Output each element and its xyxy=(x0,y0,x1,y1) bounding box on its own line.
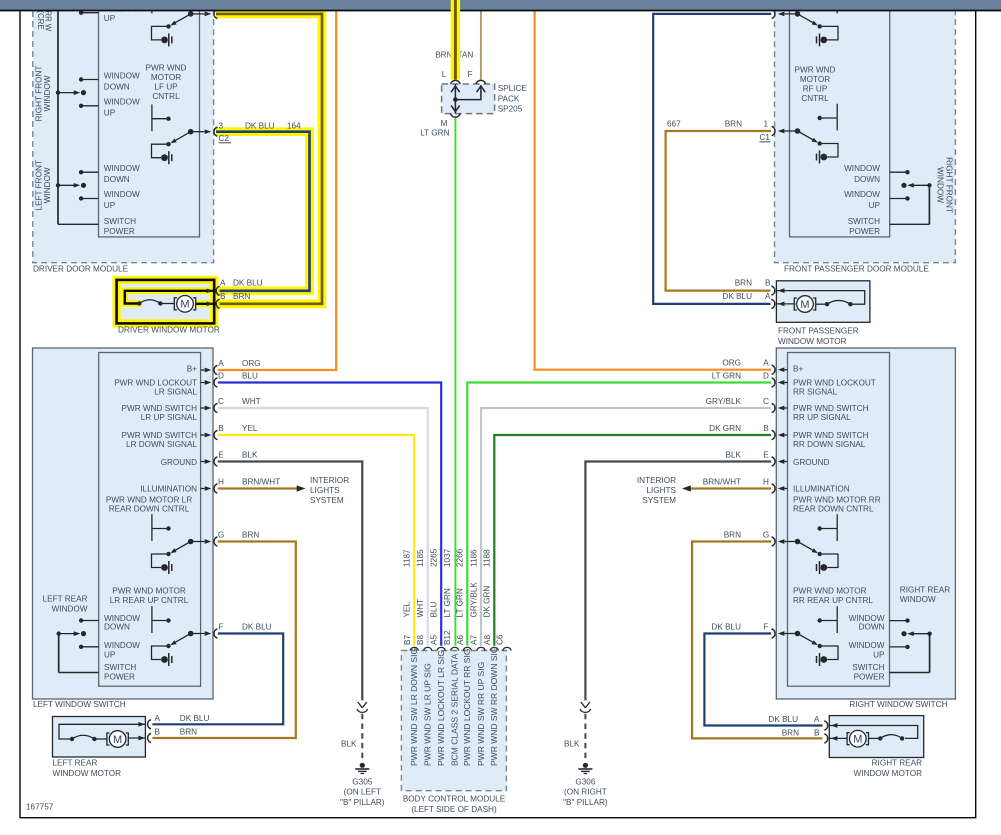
svg-text:RR REAR UP CNTRL: RR REAR UP CNTRL xyxy=(793,596,873,605)
svg-text:M: M xyxy=(441,119,448,128)
svg-text:DK BLU: DK BLU xyxy=(242,623,272,632)
svg-text:G: G xyxy=(763,531,769,540)
svg-text:PWR WND LOCKOUT: PWR WND LOCKOUT xyxy=(793,379,876,388)
svg-text:SP205: SP205 xyxy=(498,105,523,114)
svg-text:RR UP SIGNAL: RR UP SIGNAL xyxy=(793,413,851,422)
svg-text:M: M xyxy=(853,734,862,746)
svg-text:GRY/BLK: GRY/BLK xyxy=(469,582,478,618)
svg-text:BRN: BRN xyxy=(724,531,741,540)
svg-text:POWER: POWER xyxy=(854,672,885,681)
svg-text:A: A xyxy=(155,714,161,723)
svg-text:1: 1 xyxy=(763,120,768,129)
svg-text:(ON RIGHT: (ON RIGHT xyxy=(564,788,607,797)
svg-text:ILLUMINATION: ILLUMINATION xyxy=(793,485,850,494)
svg-text:WINDOW: WINDOW xyxy=(844,190,880,199)
svg-text:MOTOR: MOTOR xyxy=(800,75,830,84)
svg-text:167757: 167757 xyxy=(26,803,54,812)
svg-text:LR UP SIGNAL: LR UP SIGNAL xyxy=(141,413,198,422)
svg-text:SYSTEM: SYSTEM xyxy=(642,496,676,505)
svg-text:FRONT PASSENGER DOOR MODULE: FRONT PASSENGER DOOR MODULE xyxy=(784,265,929,274)
svg-text:A5: A5 xyxy=(430,635,439,645)
svg-text:RIGHT WINDOW SWITCH: RIGHT WINDOW SWITCH xyxy=(849,700,947,709)
svg-text:2265: 2265 xyxy=(430,548,439,567)
svg-text:LT GRN: LT GRN xyxy=(443,588,452,617)
svg-text:F: F xyxy=(467,70,472,79)
svg-text:C1: C1 xyxy=(760,133,771,142)
svg-text:WINDOW: WINDOW xyxy=(104,641,140,650)
svg-text:UP: UP xyxy=(104,14,116,23)
svg-text:A7: A7 xyxy=(470,635,479,645)
svg-text:H: H xyxy=(763,478,769,487)
svg-text:DK GRN: DK GRN xyxy=(483,586,492,618)
svg-text:F: F xyxy=(218,623,223,632)
svg-text:RIGHT REAR: RIGHT REAR xyxy=(900,586,950,595)
svg-text:PWR WND MOTOR: PWR WND MOTOR xyxy=(793,587,867,596)
svg-text:BCM CLASS 2 SERIAL DATA: BCM CLASS 2 SERIAL DATA xyxy=(450,653,460,766)
svg-text:B: B xyxy=(763,424,769,433)
svg-text:POWER: POWER xyxy=(104,672,135,681)
svg-text:(LEFT SIDE OF DASH): (LEFT SIDE OF DASH) xyxy=(411,805,497,814)
svg-text:3: 3 xyxy=(219,122,224,131)
svg-text:SPLICE: SPLICE xyxy=(498,84,528,93)
svg-text:BRN: BRN xyxy=(233,292,250,301)
svg-text:BLK: BLK xyxy=(341,740,357,749)
svg-text:"B" PILLAR): "B" PILLAR) xyxy=(340,798,385,807)
svg-text:UP: UP xyxy=(104,201,116,210)
svg-text:M: M xyxy=(113,734,122,746)
svg-text:H: H xyxy=(218,478,224,487)
svg-text:BRN: BRN xyxy=(735,279,752,288)
svg-text:(ON LEFT: (ON LEFT xyxy=(344,788,381,797)
svg-text:RR W: RR W xyxy=(43,11,52,32)
svg-text:REAR DOWN CNTRL: REAR DOWN CNTRL xyxy=(109,505,190,514)
svg-text:1187: 1187 xyxy=(403,549,412,567)
svg-text:RIGHT REAR: RIGHT REAR xyxy=(872,759,922,768)
svg-text:BLK: BLK xyxy=(564,740,580,749)
svg-text:LEFT WINDOW SWITCH: LEFT WINDOW SWITCH xyxy=(33,700,126,709)
svg-text:WINDOW MOTOR: WINDOW MOTOR xyxy=(853,769,922,778)
svg-text:BRN/WHT: BRN/WHT xyxy=(703,478,741,487)
svg-text:C: C xyxy=(763,397,769,406)
svg-text:B12: B12 xyxy=(443,630,452,645)
svg-text:PWR WND: PWR WND xyxy=(795,66,836,75)
svg-text:A8: A8 xyxy=(483,635,492,645)
svg-text:PWR WND MOTOR: PWR WND MOTOR xyxy=(112,587,186,596)
svg-text:M: M xyxy=(180,299,189,311)
svg-text:2266: 2266 xyxy=(456,548,465,567)
svg-text:DK BLU: DK BLU xyxy=(245,122,275,131)
svg-text:A: A xyxy=(220,279,226,288)
svg-text:DOWN: DOWN xyxy=(104,83,130,92)
svg-text:GROUND: GROUND xyxy=(793,458,829,467)
svg-text:WINDOW: WINDOW xyxy=(104,190,140,199)
svg-text:WINDOW: WINDOW xyxy=(104,72,140,81)
svg-text:RR DOWN SIGNAL: RR DOWN SIGNAL xyxy=(793,440,866,449)
svg-text:667: 667 xyxy=(667,120,681,129)
svg-text:GRY/BLK: GRY/BLK xyxy=(706,397,742,406)
svg-text:RF UP: RF UP xyxy=(803,85,828,94)
svg-text:A: A xyxy=(218,359,224,368)
svg-text:GROUND: GROUND xyxy=(161,458,197,467)
svg-text:PWR WND SW LR DOWN SIG: PWR WND SW LR DOWN SIG xyxy=(409,648,419,766)
svg-text:WINDOW: WINDOW xyxy=(104,164,140,173)
svg-text:PWR WND LOCKOUT LR SIG: PWR WND LOCKOUT LR SIG xyxy=(436,650,446,766)
svg-text:ILLUMINATION: ILLUMINATION xyxy=(140,485,197,494)
svg-text:POWER: POWER xyxy=(849,227,880,236)
svg-text:INTERIOR: INTERIOR xyxy=(637,476,676,485)
svg-text:C6: C6 xyxy=(496,634,505,645)
svg-text:WINDOW: WINDOW xyxy=(43,75,52,111)
svg-text:BLU: BLU xyxy=(430,601,439,617)
svg-text:DOWN: DOWN xyxy=(104,622,130,631)
svg-text:LIGHTS: LIGHTS xyxy=(310,486,340,495)
svg-text:SWITCH: SWITCH xyxy=(104,217,136,226)
svg-text:B+: B+ xyxy=(793,365,803,374)
svg-text:SWITCH: SWITCH xyxy=(852,663,884,672)
svg-text:1188: 1188 xyxy=(483,549,492,567)
svg-text:WINDOW MOTOR: WINDOW MOTOR xyxy=(53,769,122,778)
svg-text:D: D xyxy=(218,372,224,381)
svg-text:PWR WND SW RR UP SIG: PWR WND SW RR UP SIG xyxy=(476,662,486,766)
svg-text:LF UP: LF UP xyxy=(154,83,178,92)
svg-text:BRN: BRN xyxy=(435,51,452,60)
svg-text:REAR DOWN CNTRL: REAR DOWN CNTRL xyxy=(793,505,874,514)
svg-text:PWR WND LOCKOUT RR SIG: PWR WND LOCKOUT RR SIG xyxy=(462,649,472,766)
svg-text:LR SIGNAL: LR SIGNAL xyxy=(154,388,197,397)
svg-text:PWR WND SWITCH: PWR WND SWITCH xyxy=(793,431,869,440)
svg-text:DRIVER WINDOW MOTOR: DRIVER WINDOW MOTOR xyxy=(118,326,220,335)
svg-text:LIGHTS: LIGHTS xyxy=(646,486,676,495)
svg-text:LT GRN: LT GRN xyxy=(456,588,465,617)
svg-text:UP: UP xyxy=(104,650,116,659)
svg-text:BLK: BLK xyxy=(726,451,742,460)
svg-text:BRN/WHT: BRN/WHT xyxy=(242,478,280,487)
svg-text:POWER: POWER xyxy=(104,227,135,236)
svg-text:BLU: BLU xyxy=(242,372,258,381)
svg-text:LEFT REAR: LEFT REAR xyxy=(43,595,88,604)
svg-text:DRIVER DOOR MODULE: DRIVER DOOR MODULE xyxy=(33,265,129,274)
svg-text:ORG: ORG xyxy=(242,359,261,368)
svg-text:C2: C2 xyxy=(219,134,230,143)
svg-text:C: C xyxy=(218,397,224,406)
svg-text:B: B xyxy=(220,292,226,301)
svg-text:LT GRN: LT GRN xyxy=(420,129,449,138)
svg-text:PWR WND SWITCH: PWR WND SWITCH xyxy=(793,404,869,413)
svg-text:WHT: WHT xyxy=(416,599,425,618)
svg-text:CNTRL: CNTRL xyxy=(801,94,829,103)
svg-text:PWR WND LOCKOUT: PWR WND LOCKOUT xyxy=(114,379,197,388)
svg-text:PWR WND MOTOR RR: PWR WND MOTOR RR xyxy=(793,496,881,505)
svg-text:WINDOW: WINDOW xyxy=(43,167,52,203)
svg-text:PWR WND SWITCH: PWR WND SWITCH xyxy=(122,404,198,413)
svg-text:A: A xyxy=(814,715,820,724)
svg-text:DK BLU: DK BLU xyxy=(722,292,752,301)
svg-text:WINDOW: WINDOW xyxy=(900,595,936,604)
svg-text:B7: B7 xyxy=(403,635,412,645)
svg-text:PWR WND MOTOR LR: PWR WND MOTOR LR xyxy=(106,496,192,505)
svg-text:1186: 1186 xyxy=(469,549,478,567)
svg-text:WHT: WHT xyxy=(242,397,261,406)
svg-text:G305: G305 xyxy=(352,777,372,786)
svg-text:PWR WND SWITCH: PWR WND SWITCH xyxy=(122,431,198,440)
svg-text:PWR WND SW RR DOWN SIG: PWR WND SW RR DOWN SIG xyxy=(489,647,499,766)
svg-text:WINDOW: WINDOW xyxy=(104,98,140,107)
svg-text:RIGHT FRONT: RIGHT FRONT xyxy=(945,157,954,213)
svg-text:A: A xyxy=(765,292,771,301)
svg-text:M: M xyxy=(800,299,809,311)
svg-text:DK BLU: DK BLU xyxy=(768,715,798,724)
svg-text:E: E xyxy=(218,451,224,460)
svg-text:WINDOW: WINDOW xyxy=(849,641,885,650)
svg-text:164: 164 xyxy=(287,122,301,131)
svg-text:WINDOW: WINDOW xyxy=(52,605,88,614)
svg-text:MOTOR: MOTOR xyxy=(151,73,181,82)
svg-text:CNTRL: CNTRL xyxy=(152,92,180,101)
svg-text:INTERIOR: INTERIOR xyxy=(310,476,349,485)
svg-text:DK BLU: DK BLU xyxy=(233,279,263,288)
svg-text:YEL: YEL xyxy=(403,602,412,618)
svg-text:LT GRN: LT GRN xyxy=(712,372,741,381)
svg-text:A: A xyxy=(763,359,769,368)
svg-text:DK BLU: DK BLU xyxy=(711,623,741,632)
svg-text:G306: G306 xyxy=(575,777,595,786)
svg-text:G: G xyxy=(218,531,224,540)
svg-text:FRONT PASSENGER: FRONT PASSENGER xyxy=(778,327,859,336)
svg-text:D: D xyxy=(763,372,769,381)
svg-text:E: E xyxy=(763,451,769,460)
svg-text:PWR WND SW LR UP SIG: PWR WND SW LR UP SIG xyxy=(423,663,433,766)
svg-text:DK GRN: DK GRN xyxy=(709,424,741,433)
svg-text:SWITCH: SWITCH xyxy=(848,217,880,226)
svg-text:A6: A6 xyxy=(456,635,465,645)
svg-text:B+: B+ xyxy=(187,365,197,374)
svg-text:UP: UP xyxy=(104,109,116,118)
svg-text:1037: 1037 xyxy=(443,548,452,567)
svg-text:"B" PILLAR): "B" PILLAR) xyxy=(563,798,608,807)
svg-text:1185: 1185 xyxy=(416,549,425,567)
svg-text:B8: B8 xyxy=(416,635,425,645)
svg-text:PACK: PACK xyxy=(498,95,520,104)
svg-text:WINDOW MOTOR: WINDOW MOTOR xyxy=(778,337,847,346)
svg-text:L: L xyxy=(442,70,447,79)
svg-text:WINDOW: WINDOW xyxy=(844,164,880,173)
svg-text:DK BLU: DK BLU xyxy=(180,714,210,723)
svg-text:BRN: BRN xyxy=(180,728,197,737)
svg-text:UP: UP xyxy=(873,650,885,659)
svg-text:B: B xyxy=(218,424,224,433)
svg-text:BLK: BLK xyxy=(242,451,258,460)
svg-text:BRN: BRN xyxy=(725,120,742,129)
svg-text:RR SIGNAL: RR SIGNAL xyxy=(793,388,838,397)
svg-text:LR DOWN SIGNAL: LR DOWN SIGNAL xyxy=(126,440,197,449)
svg-text:LEFT REAR: LEFT REAR xyxy=(53,759,98,768)
svg-text:BRN: BRN xyxy=(242,531,259,540)
svg-text:DOWN: DOWN xyxy=(104,175,130,184)
svg-text:B: B xyxy=(155,728,161,737)
svg-text:F: F xyxy=(763,623,768,632)
svg-text:B: B xyxy=(765,279,771,288)
svg-text:BODY CONTROL MODULE: BODY CONTROL MODULE xyxy=(403,795,506,804)
svg-text:DOWN: DOWN xyxy=(854,175,880,184)
svg-text:B: B xyxy=(814,729,820,738)
svg-text:UP: UP xyxy=(869,201,881,210)
svg-text:SWITCH: SWITCH xyxy=(104,663,136,672)
svg-text:BRN: BRN xyxy=(782,729,799,738)
svg-text:DOWN: DOWN xyxy=(859,623,885,632)
svg-text:LR REAR UP CNTRL: LR REAR UP CNTRL xyxy=(110,596,189,605)
svg-text:WINDOW: WINDOW xyxy=(936,167,945,203)
svg-text:PWR WND: PWR WND xyxy=(146,64,187,73)
svg-text:ORG: ORG xyxy=(722,359,741,368)
svg-text:YEL: YEL xyxy=(242,424,258,433)
svg-text:SYSTEM: SYSTEM xyxy=(310,496,344,505)
